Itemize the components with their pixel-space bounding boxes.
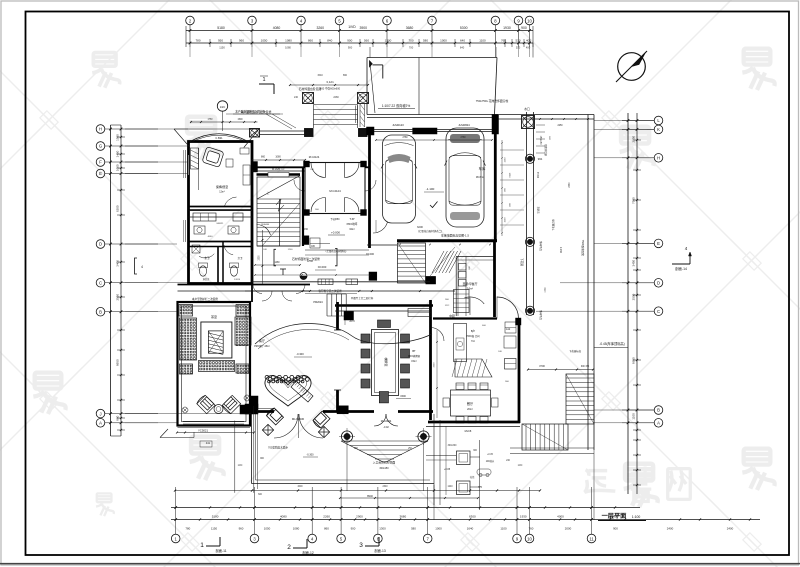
svg-text:一层平面: 一层平面 <box>602 512 627 520</box>
svg-text:860: 860 <box>343 74 348 77</box>
svg-text:5300: 5300 <box>460 26 468 30</box>
svg-text:B: B <box>657 408 660 413</box>
svg-text:900: 900 <box>351 527 356 531</box>
svg-text:J: J <box>99 411 101 416</box>
svg-text:3,121: 3,121 <box>326 80 334 84</box>
svg-text:2000: 2000 <box>565 527 572 531</box>
svg-text:1930: 1930 <box>503 26 511 30</box>
svg-text:1:100: 1:100 <box>632 515 641 519</box>
svg-text:E: E <box>657 241 660 246</box>
svg-text:1500: 1500 <box>505 217 507 223</box>
svg-text:3700: 3700 <box>539 364 545 368</box>
svg-text:1/2C: 1/2C <box>445 305 450 307</box>
svg-text:240x9: 240x9 <box>538 171 540 178</box>
svg-text:客厅: 客厅 <box>259 338 265 343</box>
svg-text:3400: 3400 <box>116 260 120 267</box>
svg-text:±0.000: ±0.000 <box>366 252 374 256</box>
svg-text:JLM2123: JLM2123 <box>392 123 404 127</box>
svg-text:860: 860 <box>324 527 329 531</box>
svg-text:M.C2124: M.C2124 <box>329 189 341 193</box>
svg-text:900: 900 <box>613 527 618 531</box>
svg-text:8650: 8650 <box>632 357 636 364</box>
svg-text:11: 11 <box>589 536 594 541</box>
svg-text:2400: 2400 <box>667 527 674 531</box>
svg-text:剖面-14: 剖面-14 <box>675 266 687 271</box>
svg-text:3900: 3900 <box>359 26 367 30</box>
svg-text:3680: 3680 <box>406 26 414 30</box>
svg-text:B: B <box>99 309 102 314</box>
svg-text:400: 400 <box>526 39 531 43</box>
svg-text:9%4: 9%4 <box>538 159 543 161</box>
svg-text:1150: 1150 <box>211 527 218 531</box>
svg-text:300 150: 300 150 <box>581 366 590 368</box>
svg-text:2780: 2780 <box>402 137 408 139</box>
svg-text:车库地面标高见图-1.5: 车库地面标高见图-1.5 <box>441 233 469 238</box>
svg-text:BT: BT <box>412 349 416 353</box>
svg-text:B户: B户 <box>471 329 476 333</box>
svg-text:(七雪花白石材拼花): (七雪花白石材拼花) <box>326 249 347 253</box>
svg-text:1050: 1050 <box>261 39 268 43</box>
svg-text:560: 560 <box>364 39 369 43</box>
svg-text:+0.05: +0.05 <box>444 468 451 471</box>
svg-text:-0.300: -0.300 <box>296 352 304 356</box>
svg-text:1/2C: 1/2C <box>238 465 243 467</box>
svg-text:900: 900 <box>347 39 352 43</box>
svg-text:D: D <box>99 242 102 247</box>
svg-text:240: 240 <box>294 96 299 99</box>
svg-text:600 中含600x600: 600 中含600x600 <box>320 87 341 91</box>
svg-text:6200: 6200 <box>417 225 423 229</box>
svg-text:510: 510 <box>516 46 521 50</box>
svg-text:1200: 1200 <box>288 249 294 251</box>
svg-text:400: 400 <box>526 46 531 50</box>
svg-text:5180: 5180 <box>212 515 219 519</box>
svg-text:8950: 8950 <box>116 359 120 366</box>
svg-text:580: 580 <box>423 39 428 43</box>
svg-text:早餐厅上空二层栏杆: 早餐厅上空二层栏杆 <box>351 296 374 300</box>
svg-text:1250: 1250 <box>505 157 507 163</box>
svg-text:6200: 6200 <box>116 205 120 212</box>
svg-text:M.1325: M.1325 <box>272 168 281 171</box>
svg-text:640: 640 <box>460 39 465 43</box>
svg-text:次卫: 次卫 <box>238 256 243 260</box>
svg-text:C: C <box>99 280 102 285</box>
svg-text:1/VD: 1/VD <box>307 259 313 263</box>
svg-text:D1816: D1816 <box>234 279 241 281</box>
svg-text:1080: 1080 <box>293 527 300 531</box>
svg-text:C.B21: C.B21 <box>215 136 223 140</box>
svg-text:(七雪花白石材拼花二): (七雪花白石材拼花二) <box>418 229 442 233</box>
svg-text:1100: 1100 <box>632 413 636 420</box>
svg-text:主卫: 主卫 <box>204 256 210 260</box>
svg-text:1640: 1640 <box>467 527 474 531</box>
svg-text:300x300: 300x300 <box>448 445 458 447</box>
svg-text:1730: 1730 <box>545 287 547 293</box>
svg-text:MLC8: MLC8 <box>465 430 472 433</box>
svg-text:760: 760 <box>529 527 534 531</box>
svg-text:1/2C: 1/2C <box>518 465 523 467</box>
svg-text:1540: 1540 <box>317 74 323 77</box>
svg-text:580: 580 <box>411 527 416 531</box>
svg-text:150x150: 150x150 <box>539 136 541 146</box>
svg-text:750x750x 花岗岩饰面空柱: 750x750x 花岗岩饰面空柱 <box>476 99 509 103</box>
svg-text:700宽防腐木踏步: 700宽防腐木踏步 <box>268 446 288 450</box>
svg-text:1930: 1930 <box>520 515 527 519</box>
svg-text:1500: 1500 <box>259 255 261 261</box>
svg-text:300x150: 300x150 <box>379 467 389 470</box>
svg-text:PRO棋牌室: PRO棋牌室 <box>408 354 421 358</box>
svg-text:+0.000: +0.000 <box>331 231 340 235</box>
svg-text:7m²: 7m² <box>471 340 475 343</box>
svg-text:PRO地坪: PRO地坪 <box>347 222 358 226</box>
svg-text:1300: 1300 <box>385 39 392 43</box>
svg-text:960: 960 <box>239 527 244 531</box>
svg-text:36.6m²: 36.6m² <box>476 175 484 179</box>
svg-text:2250: 2250 <box>557 125 563 127</box>
svg-text:H: H <box>657 156 660 161</box>
svg-text:-0.02: -0.02 <box>383 426 389 429</box>
svg-text:7500: 7500 <box>632 197 636 204</box>
svg-text:9.0m²: 9.0m² <box>467 288 473 291</box>
svg-text:F: F <box>99 160 102 165</box>
svg-text:1500: 1500 <box>116 134 120 141</box>
svg-text:3: 3 <box>359 542 363 549</box>
svg-text:775: 775 <box>478 486 483 489</box>
svg-text:1480: 1480 <box>274 262 280 264</box>
svg-text:TJP: TJP <box>350 217 355 221</box>
svg-text:本户型防护栏二次装修: 本户型防护栏二次装修 <box>192 297 218 301</box>
svg-text:4080: 4080 <box>280 515 287 519</box>
svg-text:西厨/早餐厅: 西厨/早餐厅 <box>463 282 478 286</box>
svg-text:下花园: 下花园 <box>520 258 524 266</box>
svg-text:K: K <box>657 127 660 132</box>
svg-text:1080: 1080 <box>275 156 281 159</box>
svg-text:M.C2334: M.C2334 <box>381 419 392 423</box>
svg-text:1: 1 <box>262 77 265 83</box>
svg-text:5180: 5180 <box>217 26 225 30</box>
svg-text:950: 950 <box>218 39 223 43</box>
svg-text:600: 600 <box>469 266 471 269</box>
svg-text:MLC2330: MLC2330 <box>292 417 305 421</box>
svg-text:E: E <box>99 171 102 176</box>
svg-text:510: 510 <box>515 39 520 43</box>
svg-text:900: 900 <box>348 46 353 50</box>
svg-text:1:150: 1:150 <box>559 247 562 254</box>
svg-text:UP: UP <box>281 169 285 171</box>
svg-text:剖面-12: 剖面-12 <box>302 550 314 555</box>
svg-text:860: 860 <box>308 39 313 43</box>
svg-text:±0.000: ±0.000 <box>318 265 327 269</box>
svg-text:4000: 4000 <box>557 515 564 519</box>
svg-text:1080: 1080 <box>285 46 291 50</box>
svg-text:-0.300: -0.300 <box>306 454 314 457</box>
svg-text:下间050: 下间050 <box>330 217 340 221</box>
svg-text:6300: 6300 <box>469 515 476 519</box>
svg-text:780: 780 <box>195 39 200 43</box>
svg-text:2250: 2250 <box>632 135 636 142</box>
svg-text:D: D <box>657 281 660 286</box>
svg-text:下花园标高: 下花园标高 <box>569 349 582 353</box>
svg-text:1100: 1100 <box>500 527 507 531</box>
svg-text:840: 840 <box>327 39 332 43</box>
svg-text:7500(卧室面宽): 7500(卧室面宽) <box>581 240 585 257</box>
svg-text:2260: 2260 <box>323 515 330 519</box>
svg-text:3450: 3450 <box>632 259 636 266</box>
svg-text:2: 2 <box>287 544 291 551</box>
svg-text:保姆/居室: 保姆/居室 <box>216 184 228 189</box>
svg-text:2400: 2400 <box>727 527 734 531</box>
svg-text:640: 640 <box>460 46 465 50</box>
svg-text:1100: 1100 <box>479 39 486 43</box>
svg-text:1240: 1240 <box>447 486 453 488</box>
svg-text:2780: 2780 <box>460 137 466 139</box>
svg-text:700: 700 <box>408 39 413 43</box>
svg-text:2550: 2550 <box>116 294 120 301</box>
svg-text:1450: 1450 <box>116 150 120 157</box>
svg-text:1050: 1050 <box>264 527 271 531</box>
svg-text:32m²: 32m² <box>349 228 355 231</box>
svg-text:1250: 1250 <box>508 173 510 179</box>
svg-text:240: 240 <box>360 96 365 99</box>
svg-text:1500: 1500 <box>400 395 406 398</box>
svg-text:3300: 3300 <box>434 362 436 368</box>
svg-text:4060: 4060 <box>208 236 214 238</box>
svg-text:1000: 1000 <box>116 164 120 171</box>
svg-text:900: 900 <box>521 26 527 30</box>
svg-text:700: 700 <box>409 46 414 50</box>
svg-text:休闲平台: 休闲平台 <box>539 241 543 251</box>
svg-text:1000: 1000 <box>440 39 447 43</box>
svg-text:860: 860 <box>261 156 266 159</box>
svg-text:本户型增加防门二次装修: 本户型增加防门二次装修 <box>235 110 265 114</box>
svg-text:4080: 4080 <box>273 26 281 30</box>
svg-text:15m²: 15m² <box>411 360 417 363</box>
svg-text:2340: 2340 <box>382 486 388 488</box>
svg-text:1080: 1080 <box>285 39 292 43</box>
svg-text:1: 1 <box>200 542 204 549</box>
svg-text:-0.45(车库顶标高): -0.45(车库顶标高) <box>599 341 624 346</box>
svg-text:1:10/7.22 双向坡2%: 1:10/7.22 双向坡2% <box>382 103 411 108</box>
svg-text:茶室: 茶室 <box>211 314 217 319</box>
svg-text:+0.05: +0.05 <box>487 454 494 456</box>
svg-text:中厨: 中厨 <box>449 314 455 318</box>
svg-text:C: C <box>657 309 660 314</box>
svg-text:10: 10 <box>527 536 532 541</box>
svg-text:车库: 车库 <box>479 166 486 171</box>
svg-text:960: 960 <box>239 39 244 43</box>
svg-text:棋牌室: 棋牌室 <box>384 357 389 366</box>
svg-text:1000: 1000 <box>435 527 442 531</box>
svg-text:2900: 2900 <box>356 515 363 519</box>
svg-text:水口: 水口 <box>524 107 530 111</box>
svg-text:剖面-13: 剖面-13 <box>374 548 386 553</box>
svg-text:H: H <box>99 127 102 132</box>
svg-text:G: G <box>99 144 102 149</box>
svg-text:12m²: 12m² <box>219 191 225 194</box>
svg-text:休闲平台: 休闲平台 <box>539 310 543 320</box>
svg-text:1500: 1500 <box>237 119 243 121</box>
svg-text:M.C2124: M.C2124 <box>309 155 320 159</box>
svg-text:客厅挑空见二次装修: 客厅挑空见二次装修 <box>318 289 342 293</box>
svg-text:M0821: M0821 <box>217 223 224 225</box>
svg-text:3680: 3680 <box>399 515 406 519</box>
svg-text:PM2024: PM2024 <box>313 301 323 304</box>
svg-text:YC5021: YC5021 <box>198 429 209 433</box>
svg-text:760: 760 <box>501 39 506 43</box>
svg-text:餐厅: 餐厅 <box>467 401 474 406</box>
svg-text:2070: 2070 <box>349 320 355 323</box>
svg-text:1150: 1150 <box>219 46 225 50</box>
svg-text:入口台阶石材饰面: 入口台阶石材饰面 <box>373 461 396 465</box>
svg-text:1760: 1760 <box>207 119 213 121</box>
svg-text:3260: 3260 <box>316 26 324 30</box>
svg-text:1/UA304: 1/UA304 <box>261 223 270 226</box>
svg-text:800: 800 <box>116 415 120 420</box>
svg-text:上: 上 <box>267 191 270 195</box>
svg-text:A: A <box>657 421 660 426</box>
svg-text:-1.100: -1.100 <box>426 187 435 191</box>
svg-text:剖面-11: 剖面-11 <box>215 548 226 553</box>
svg-text:10: 10 <box>527 18 532 23</box>
svg-text:石材饰面台阶见图: 石材饰面台阶见图 <box>299 87 322 91</box>
svg-text:20m²: 20m² <box>467 408 473 411</box>
svg-text:4: 4 <box>141 265 143 269</box>
svg-text:441: 441 <box>206 442 211 445</box>
svg-text:8940: 8940 <box>367 494 373 498</box>
svg-text:780: 780 <box>185 527 190 531</box>
svg-text:2500: 2500 <box>632 293 636 300</box>
svg-text:石材饰面防滑二次装修: 石材饰面防滑二次装修 <box>292 257 320 261</box>
svg-text:1/2C: 1/2C <box>220 105 226 109</box>
svg-text:2280: 2280 <box>333 96 339 99</box>
svg-text:1300: 1300 <box>379 527 386 531</box>
svg-text:PRO操 合间: PRO操 合间 <box>466 334 480 338</box>
svg-text:4000: 4000 <box>297 486 303 488</box>
svg-text:2660: 2660 <box>569 182 571 188</box>
svg-text:1/VD: 1/VD <box>348 25 356 29</box>
svg-text:A: A <box>99 421 102 426</box>
svg-text:JLM2824: JLM2824 <box>458 123 470 127</box>
svg-text:G12: G12 <box>506 328 511 331</box>
